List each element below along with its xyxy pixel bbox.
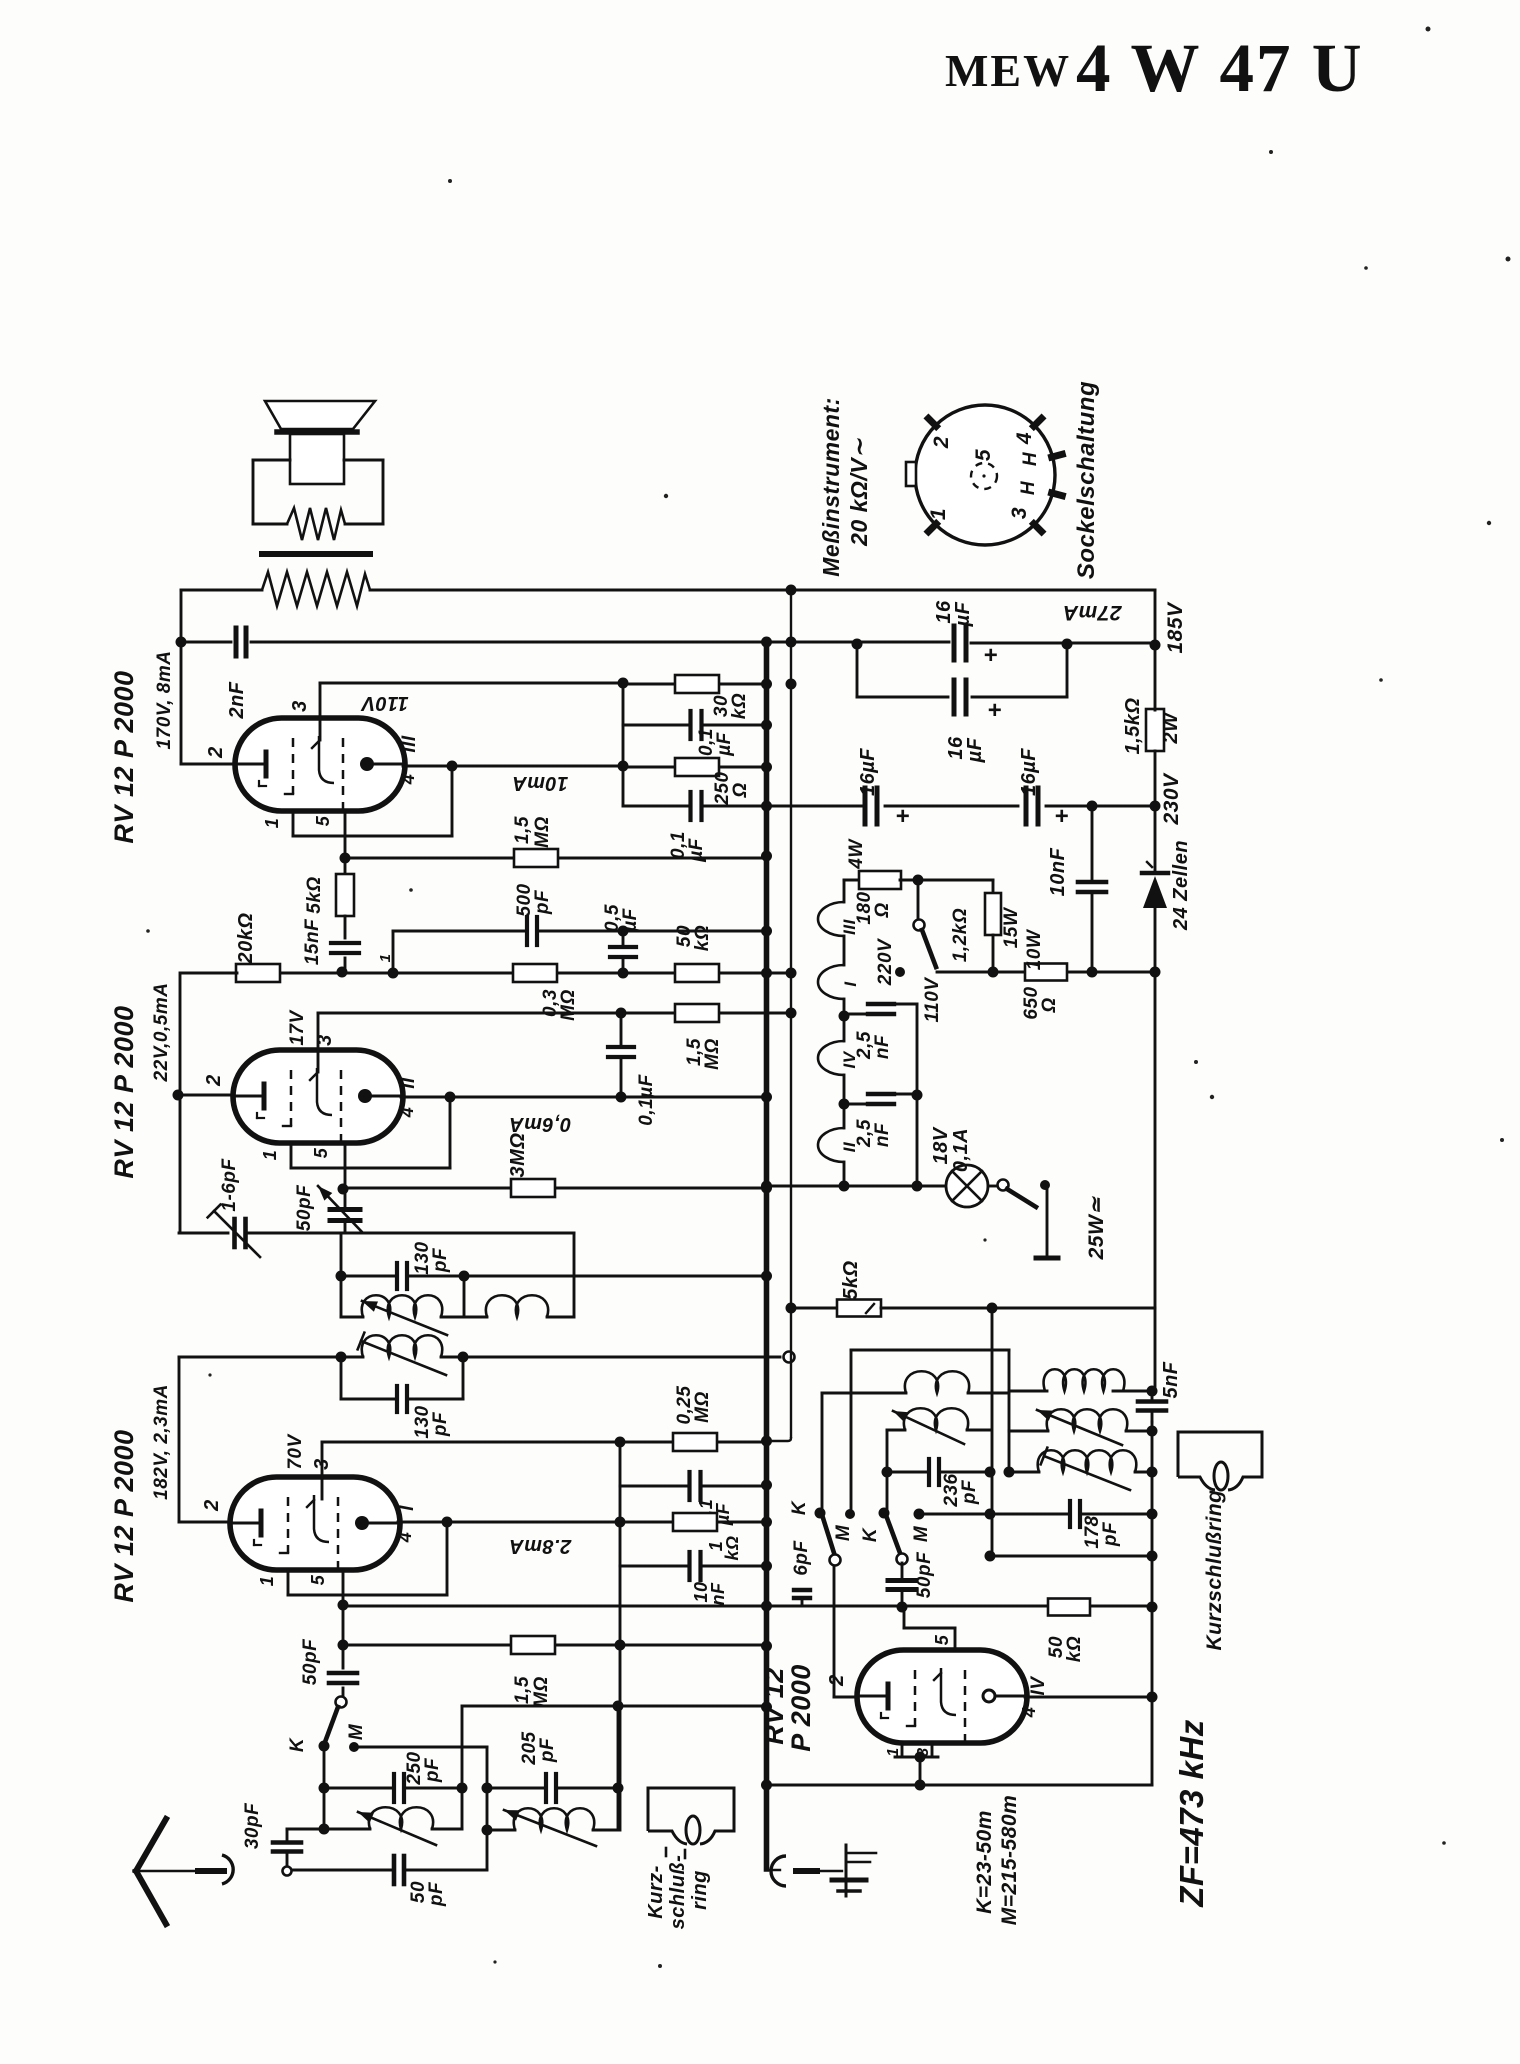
wire x487 vertical — [486, 1747, 489, 1869]
svg-text:6pF: 6pF — [791, 1539, 812, 1575]
scan specks (paper artifacts) — [1426, 27, 1431, 32]
svg-text:II: II — [398, 1077, 419, 1089]
svg-text:M: M — [911, 1525, 932, 1542]
svg-text:5: 5 — [311, 1147, 331, 1158]
wire 230V rail y806 — [767, 805, 858, 808]
trimmer 1-6pF — [179, 1232, 228, 1235]
wire y931 to bus — [623, 930, 767, 933]
svg-text:K: K — [287, 1737, 308, 1752]
wire V2 anode rail y1097 — [401, 1096, 767, 1099]
dial lamp 18V 0,1A — [946, 1165, 988, 1207]
svg-text:2W: 2W — [1160, 711, 1182, 745]
svg-text:RV 12: RV 12 — [759, 1667, 789, 1745]
svg-text:pF: pF — [959, 1479, 980, 1505]
nodes y973 at buses — [761, 968, 772, 979]
svg-text:4: 4 — [398, 774, 418, 786]
svg-text:M: M — [346, 1723, 367, 1740]
tube socket diagram (Sockelschaltung) — [906, 405, 1062, 545]
svg-text:1,2kΩ: 1,2kΩ — [950, 908, 971, 962]
resistor 0,3 MOhm — [513, 964, 557, 982]
svg-text:+: + — [1055, 803, 1070, 830]
resistor 1,5kOhm 2W in right bus — [1146, 709, 1164, 751]
node x623 y767 — [618, 761, 629, 772]
wire mixer rail y1605 — [343, 1605, 1152, 1608]
svg-text:50pF: 50pF — [294, 1184, 315, 1231]
resistor 1 kOhm — [620, 1521, 767, 1524]
IF2 tuned coil in rail — [341, 1356, 363, 1359]
capacitor 236pF — [882, 1467, 893, 1478]
wire heater return rail y1188 continues right — [767, 1185, 947, 1188]
svg-text:MEW: MEW — [945, 45, 1071, 96]
wire HT top rail y590 — [181, 589, 262, 592]
node junction x181 y642 — [176, 637, 187, 648]
wire osc grid rail y1357 — [179, 1356, 341, 1359]
svg-text:110V: 110V — [922, 977, 943, 1023]
tube V4 RV12P2000 oscillator — [857, 1650, 1027, 1743]
wire V4 to bottom rail — [919, 1757, 922, 1785]
wire grid-leak rail y1189 with 3MOhm — [343, 1187, 767, 1190]
capacitor 50pF antenna — [287, 1869, 487, 1872]
transformer core — [262, 551, 370, 557]
capacitor 2,5nF heater #2 — [844, 1103, 869, 1106]
capacitor 0,1uF y1013-1097 — [620, 1013, 623, 1097]
svg-text:P 2000: P 2000 — [786, 1664, 816, 1752]
svg-text:1: 1 — [885, 1747, 902, 1756]
svg-text:K=23-50m: K=23-50m — [973, 1810, 996, 1914]
svg-text:15W: 15W — [1001, 906, 1022, 948]
wire V2 grid rail — [180, 1094, 233, 1097]
output transformer primary winding (zigzag) in HT rail — [262, 572, 370, 606]
svg-text:+: + — [988, 697, 1003, 724]
svg-text:20kΩ: 20kΩ — [235, 913, 257, 965]
wire x179 drop to V3 grid — [178, 1357, 181, 1522]
wire to mains terminal 25W — [1045, 1184, 1047, 1187]
wire M contact rail y1747 — [354, 1746, 487, 1749]
svg-text:17V: 17V — [287, 1010, 308, 1046]
svg-text:16µF: 16µF — [857, 748, 879, 796]
node IF2 x463 — [458, 1352, 469, 1363]
capacitor 2nF — [235, 626, 247, 658]
bus node dots — [761, 637, 772, 648]
rectifier 24 Zellen selenium — [1143, 876, 1167, 908]
svg-text:nF: nF — [708, 1582, 728, 1605]
wire V1 grid rail y764 — [181, 763, 235, 766]
svg-text:ZF=473 kHz: ZF=473 kHz — [1173, 1719, 1210, 1908]
svg-text:27mA: 27mA — [1062, 601, 1122, 624]
svg-text:5: 5 — [932, 1634, 952, 1645]
wire IF2 rail to open terminal — [463, 1356, 780, 1359]
oscillator padder rail y1514 — [914, 1509, 925, 1520]
node 185V corner — [852, 639, 863, 650]
node IF1 x464 y1276 — [459, 1271, 470, 1282]
svg-text:1,5: 1,5 — [512, 816, 533, 844]
ground symbol — [845, 1845, 848, 1896]
HT right bus x1155 — [1154, 590, 1157, 710]
wire K1 vertical x822 — [821, 1393, 824, 1512]
wire x462 vertical + rail y1706 — [461, 1706, 464, 1829]
osc coil Lc (top right) — [1009, 1390, 1047, 1393]
svg-text:III: III — [399, 735, 420, 753]
wire V3 grid rail — [179, 1521, 230, 1524]
wire bottom rail y1785 — [767, 1784, 1153, 1787]
resistor 20 kOhm — [236, 964, 280, 982]
svg-text:4W: 4W — [846, 838, 867, 870]
svg-text:0,1A: 0,1A — [950, 1128, 972, 1172]
node y1605 — [338, 1600, 349, 1611]
open circle terminal near thin bus — [784, 1352, 795, 1363]
wire V2 screen stub + rail y1013 — [317, 1013, 320, 1072]
svg-text:25W≃: 25W≃ — [1085, 1196, 1108, 1261]
wire x1009 vertical — [1008, 1350, 1011, 1472]
antenna coil L1 tunable — [319, 1824, 330, 1835]
capacitor 250pF — [319, 1783, 330, 1794]
wire IF1 middle vertical x464 — [463, 1276, 466, 1317]
svg-text:1,5kΩ: 1,5kΩ — [1122, 697, 1144, 754]
svg-text:MΩ: MΩ — [558, 989, 579, 1021]
svg-text:µF: µF — [952, 601, 974, 627]
svg-text:2.8mA: 2.8mA — [509, 1535, 573, 1557]
svg-text:pF: pF — [430, 1411, 451, 1437]
capacitor 0,1uF (V3) — [619, 1442, 622, 1522]
svg-text:ring: ring — [689, 1870, 711, 1910]
svg-text:Kurz-: Kurz- — [645, 1865, 667, 1919]
svg-text:30pF: 30pF — [242, 1802, 263, 1849]
svg-text:nF: nF — [872, 1034, 893, 1059]
capacitor 0,1uF screen bypass — [623, 724, 767, 727]
wire x887 vertical — [886, 1430, 889, 1511]
wire IF2 box + 130pF — [340, 1357, 343, 1399]
capacitor 16uF electrolytic #1 — [953, 624, 967, 662]
resistor 5kOhm osc feed — [791, 1307, 837, 1310]
svg-text:3: 3 — [289, 700, 311, 712]
node y1645 — [338, 1640, 349, 1651]
svg-text:5: 5 — [313, 815, 333, 826]
svg-text:kΩ: kΩ — [1064, 1636, 1085, 1662]
svg-text:5: 5 — [972, 449, 995, 461]
wire V4 pin5 to y1607 — [954, 1628, 957, 1650]
resistor 1,2kOhm 15W — [992, 880, 995, 893]
capacitor 500pF — [526, 915, 538, 947]
wire vertical x623 (683-806) — [622, 683, 625, 806]
wire V1 anode rail y766 — [403, 765, 623, 768]
node y931 x623 — [618, 926, 629, 937]
svg-text:0,1µF: 0,1µF — [636, 1073, 657, 1125]
svg-text:H: H — [1018, 480, 1039, 495]
wire K contact drop x324 — [323, 1746, 326, 1829]
svg-text:schluß-: schluß- — [667, 1855, 689, 1930]
wire osc rail y1350 — [851, 1349, 1009, 1352]
svg-text:Meßinstrument:: Meßinstrument: — [818, 397, 844, 577]
wave switch SW-B K/M — [815, 1508, 826, 1519]
svg-text:MΩ: MΩ — [532, 816, 553, 848]
capacitor 0,5uF — [622, 931, 625, 973]
resistor 4W heater dropper — [844, 879, 859, 882]
svg-text:pF: pF — [422, 1757, 443, 1783]
wire V3 screen stub + rail y1442 — [321, 1442, 324, 1499]
svg-text:5: 5 — [308, 1574, 328, 1585]
svg-text:3: 3 — [1008, 507, 1031, 519]
svg-text:I: I — [397, 1505, 418, 1511]
shorting ring symbol 2 — [1178, 1432, 1262, 1490]
node y1013 x621 — [616, 1008, 627, 1019]
svg-text:nF: nF — [872, 1122, 893, 1147]
svg-text:2: 2 — [201, 1499, 223, 1512]
wire 130pF rail to left bus — [464, 1275, 767, 1278]
svg-text:5nF: 5nF — [1160, 1361, 1182, 1398]
svg-text:kΩ: kΩ — [729, 693, 750, 719]
thin bus x791 — [790, 590, 792, 1437]
wire V1 pin5 cathode drop x345 — [344, 811, 347, 860]
tube V2 RV12P2000 AF stage — [233, 1050, 403, 1143]
svg-text:Sockelschaltung: Sockelschaltung — [1073, 381, 1100, 579]
svg-text:18V: 18V — [930, 1126, 952, 1164]
capacitor 16uF electrolytic #4 — [1025, 786, 1039, 826]
resistor 1,5 MOhm (V2 screen) — [675, 1004, 719, 1022]
svg-text:22V,0,5mA: 22V,0,5mA — [151, 983, 172, 1083]
svg-text:170V, 8mA: 170V, 8mA — [154, 651, 175, 750]
svg-text:M: M — [833, 1524, 854, 1541]
capacitor 16uF electrolytic #2 — [953, 678, 967, 716]
wire V4 grid from switch — [833, 1566, 836, 1697]
capacitor 16uF electrolytic #3 — [864, 786, 878, 826]
wire V4 anode rail — [1025, 1696, 1152, 1699]
svg-text:IV: IV — [1028, 1676, 1049, 1696]
svg-text:+: + — [984, 642, 999, 669]
svg-text:5kΩ: 5kΩ — [840, 1260, 862, 1299]
svg-text:MΩ: MΩ — [531, 1676, 552, 1708]
V4 pin box — [901, 1743, 904, 1757]
svg-text:5kΩ: 5kΩ — [304, 876, 325, 913]
capacitor 10nF (V3) — [619, 1522, 622, 1566]
svg-text:2nF: 2nF — [226, 681, 248, 719]
node y973 x342 and x393 — [388, 968, 399, 979]
wire IF1 right vertical x574 — [573, 1233, 576, 1317]
resistor 5kOhm cathode — [344, 858, 347, 875]
svg-text:10nF: 10nF — [1047, 847, 1069, 896]
svg-text:RV 12 P 2000: RV 12 P 2000 — [109, 670, 139, 843]
svg-text:4: 4 — [395, 1532, 415, 1544]
svg-text:pF: pF — [426, 1881, 447, 1907]
osc coil Ld tunable (right) — [1009, 1430, 1048, 1433]
loudspeaker cone — [265, 401, 375, 429]
tube V1 RV12P2000 output stage — [235, 718, 405, 811]
svg-text:24 Zellen: 24 Zellen — [1170, 840, 1192, 931]
capacitor 50pF osc — [901, 1563, 904, 1578]
capacitor 50pF series (V3 grid) — [342, 1605, 345, 1668]
svg-text:2: 2 — [203, 1074, 225, 1087]
svg-text:µF: µF — [714, 731, 735, 756]
osc coil Lb tunable (left) — [887, 1429, 905, 1432]
svg-text:MΩ: MΩ — [692, 1391, 713, 1423]
svg-text:185V: 185V — [1164, 601, 1187, 654]
svg-text:0,6mA: 0,6mA — [509, 1113, 572, 1135]
svg-text:RV 12 P 2000: RV 12 P 2000 — [109, 1429, 139, 1602]
resistor 650 Ohm 10W — [1025, 964, 1067, 981]
svg-text:1: 1 — [257, 1576, 277, 1587]
svg-text:1: 1 — [262, 818, 282, 829]
wire V3 pin5 drop x343 — [342, 1570, 345, 1605]
svg-text:H: H — [1020, 451, 1041, 466]
svg-text:pF: pF — [532, 889, 553, 915]
svg-text:10mA: 10mA — [512, 772, 568, 794]
IF1 primary coil tunable — [341, 1316, 363, 1319]
wire left drop x181 to tube I grid — [180, 590, 183, 764]
wire x620 long vertical — [619, 1566, 622, 1830]
svg-text:K: K — [789, 1500, 810, 1515]
capacitor 2,5nF heater #1 — [844, 1013, 869, 1016]
16uF loop frame — [856, 644, 859, 697]
svg-text:pF: pF — [430, 1247, 451, 1273]
wire V2 pin5 drop — [344, 1143, 347, 1189]
speaker voice coil box — [290, 434, 344, 484]
svg-text:1-6pF: 1-6pF — [219, 1158, 240, 1212]
shorting ring symbol 1 (Kurzschlussring) — [648, 1788, 734, 1844]
capacitor 30pF antenna series — [286, 1829, 289, 1840]
capacitor 178pF — [1069, 1499, 1081, 1529]
svg-text:RV 12 P 2000: RV 12 P 2000 — [109, 1005, 139, 1178]
capacitor 0,1uF (lower) — [623, 805, 877, 808]
node 230V x1092 x1155 — [1087, 801, 1098, 812]
node cathode-bottom y972 — [337, 967, 348, 978]
svg-text:4: 4 — [1013, 432, 1036, 445]
node 30k right at bus — [761, 679, 772, 690]
svg-text:4 W 47 U: 4 W 47 U — [1076, 30, 1364, 106]
resistor 250 Ohm cathode/anode net — [623, 766, 767, 769]
osc coil La (top left) — [822, 1392, 906, 1395]
svg-text:pF: pF — [1100, 1521, 1121, 1547]
svg-text:kΩ: kΩ — [692, 925, 713, 951]
wire V3 anode rail y1522 — [398, 1521, 620, 1524]
svg-text:Ω: Ω — [1039, 997, 1060, 1013]
svg-text:K: K — [860, 1527, 881, 1542]
capacitor 130pF (IF1) — [341, 1275, 464, 1278]
svg-text:+: + — [896, 803, 911, 830]
svg-text:µF: µF — [964, 737, 986, 763]
svg-text:Ω: Ω — [872, 902, 893, 918]
output transformer secondary winding + frame — [252, 460, 255, 524]
svg-text:Ω: Ω — [730, 782, 751, 798]
svg-text:20 kΩ/V∼: 20 kΩ/V∼ — [846, 438, 872, 547]
svg-text:16µF: 16µF — [1018, 748, 1040, 796]
tube V3 RV12P2000 RF stage — [230, 1477, 400, 1570]
voltage selector switch 110/220 — [913, 875, 924, 886]
wire rail y1233 to IF transformer — [246, 1232, 341, 1235]
wave switch SW-C K/M — [879, 1508, 890, 1519]
svg-text:182V, 2,3mA: 182V, 2,3mA — [151, 1384, 172, 1500]
svg-text:I: I — [841, 981, 860, 987]
wire rail y642 (anode feedback / 185V rail) — [181, 641, 231, 644]
svg-text:µF: µF — [620, 907, 641, 932]
svg-text:M=215-580m: M=215-580m — [998, 1795, 1021, 1926]
node y1189 — [338, 1184, 349, 1195]
resistor 50kOhm — [1048, 1599, 1090, 1616]
mains switch — [988, 1185, 1000, 1188]
node cathode y858 — [340, 853, 351, 864]
svg-text:1: 1 — [377, 954, 394, 963]
svg-text:III: III — [840, 918, 859, 934]
capacitor 6pF — [794, 1588, 810, 1592]
svg-text:50pF: 50pF — [914, 1551, 935, 1598]
wire x618 vertical — [617, 1706, 620, 1830]
IF1 secondary coil — [464, 1316, 487, 1319]
node x623 y683 — [618, 678, 629, 689]
wire x917 vertical — [916, 1004, 919, 1186]
resistor 0,25 MOhm — [673, 1433, 717, 1451]
capacitor 15nF cathode — [344, 916, 347, 938]
wire AVC rail y973 — [279, 972, 791, 975]
svg-text:3MΩ: 3MΩ — [507, 1133, 529, 1178]
svg-text:230V: 230V — [1160, 772, 1183, 826]
wire rail y1645 with 1,5MOhm — [343, 1644, 767, 1647]
wire IF1 left vertical x341 — [340, 1233, 343, 1317]
svg-text:MΩ: MΩ — [702, 1038, 723, 1070]
svg-text:2: 2 — [826, 1674, 848, 1687]
wire rail y972 to right bus — [937, 971, 1155, 974]
capacitor 5nF in bus — [1151, 1389, 1154, 1422]
resistor 30 kOhm screen feed — [623, 683, 767, 686]
svg-text:1,5: 1,5 — [512, 1676, 533, 1704]
svg-text:Kurzschlußring: Kurzschlußring — [1203, 1489, 1226, 1650]
svg-text:2: 2 — [930, 436, 953, 449]
svg-text:pF: pF — [537, 1737, 558, 1763]
node y973 x623 — [618, 968, 629, 979]
wire cathode rail y858 with 1,5MOhm — [345, 857, 767, 860]
svg-text:220V: 220V — [875, 938, 896, 986]
wire V1 screen stub + rail y683 — [319, 683, 322, 740]
trimmer 50pF (V2 cathode) — [344, 1189, 347, 1210]
node y1233 x341 — [336, 1271, 347, 1282]
svg-text:110V: 110V — [360, 692, 408, 714]
svg-text:1: 1 — [260, 1150, 280, 1161]
wire M1 vertical x851 — [850, 1350, 853, 1513]
osc coil Le tunable (iron core) — [1004, 1467, 1015, 1478]
svg-text:50pF: 50pF — [300, 1638, 321, 1685]
chassis bus thick x766 — [764, 641, 770, 1785]
wire osc box bottom y1556 — [985, 1551, 996, 1562]
wire x180 column (20k to V2 grid) — [181, 972, 237, 975]
wire rail y931 with 500pF — [392, 931, 395, 973]
antenna symbol — [136, 1819, 166, 1871]
earth connection — [764, 1785, 770, 1869]
heater winding humps III I IV II — [843, 880, 846, 902]
svg-text:70V: 70V — [285, 1434, 306, 1470]
tuning coil L2 tunable — [482, 1825, 493, 1836]
resistor 50 kOhm — [675, 964, 719, 982]
capacitor 10nF PSU — [1091, 806, 1094, 972]
band switch SW-A — [336, 1697, 347, 1708]
svg-text:1: 1 — [927, 508, 950, 520]
svg-text:4: 4 — [1019, 1707, 1039, 1719]
svg-text:4: 4 — [397, 1107, 417, 1119]
svg-text:10W: 10W — [1024, 928, 1045, 970]
svg-text:2: 2 — [205, 746, 227, 759]
svg-text:kΩ: kΩ — [722, 1535, 742, 1560]
svg-text:15nF: 15nF — [302, 918, 323, 965]
wire x992 long vertical — [991, 1308, 994, 1556]
capacitor 205pF — [482, 1783, 493, 1794]
